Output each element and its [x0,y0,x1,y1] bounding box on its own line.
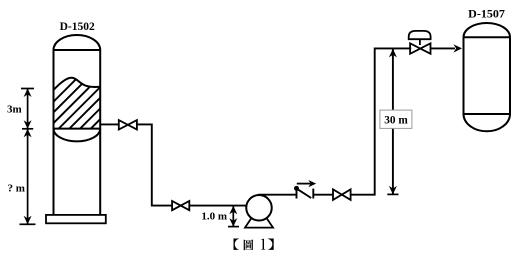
vessel D-1502 shell [54,35,101,215]
dimension 30 m label box [380,110,412,128]
pump casing [246,195,272,221]
riser pipe [350,48,411,194]
liquid hatch [15,70,160,140]
dished head arc [54,129,101,142]
valve V1 [119,120,137,129]
control valve actuator [409,31,431,45]
liquid bottom line [54,128,101,130]
pump base [245,217,273,228]
inlet pipe to D-1507 with arrow [430,47,455,49]
dimension 30 m arrow up [389,49,397,58]
dimension 1.0 m arrow down [229,218,237,227]
dimension ?m arrow up [24,129,32,138]
dimension ?m arrow down [24,216,32,225]
svg-text:30 m: 30 m [384,115,408,127]
vessel D-1507 shell [464,23,511,131]
svg-text:? m: ? m [7,183,24,195]
pipe V1 to corner down to suction run [136,124,172,205]
svg-text:D-1502: D-1502 [60,21,95,33]
outlet pipe from D-1502 [100,123,119,125]
dimension 3m arrow down [24,120,32,129]
liquid surface wave [54,78,101,90]
dimension 30 m tick bottom [387,193,398,195]
valve V2 [172,201,189,210]
pipe check valve to V3 [313,194,333,196]
dimension 30 m line [392,48,394,194]
dimension 3m line [27,89,29,129]
caption 【圖 1】 [233,239,273,251]
check valve [294,186,313,199]
dimension 3m tick top [21,88,34,90]
svg-text:3m: 3m [7,104,22,116]
check valve flow arrow [297,180,316,187]
dimension tick mid [22,128,33,130]
svg-text:1.0 m: 1.0 m [201,211,227,223]
dimension 1.0 m tick bottom [228,226,239,228]
svg-text:D-1507: D-1507 [468,7,505,21]
dimension ?m tick bottom [20,223,36,225]
discharge pipe [258,194,297,196]
dimension 1.0 m line [232,206,234,227]
dimension 3m arrow up [24,89,32,98]
vessel D-1502 base plate [46,215,106,223]
control valve body [410,43,430,54]
dimension 30 m arrow down [389,186,397,195]
dimension ?m line [27,129,29,225]
dimension 1.0 m arrow up [229,206,237,215]
suction pipe to pump [189,205,247,207]
valve V3 [333,189,351,200]
